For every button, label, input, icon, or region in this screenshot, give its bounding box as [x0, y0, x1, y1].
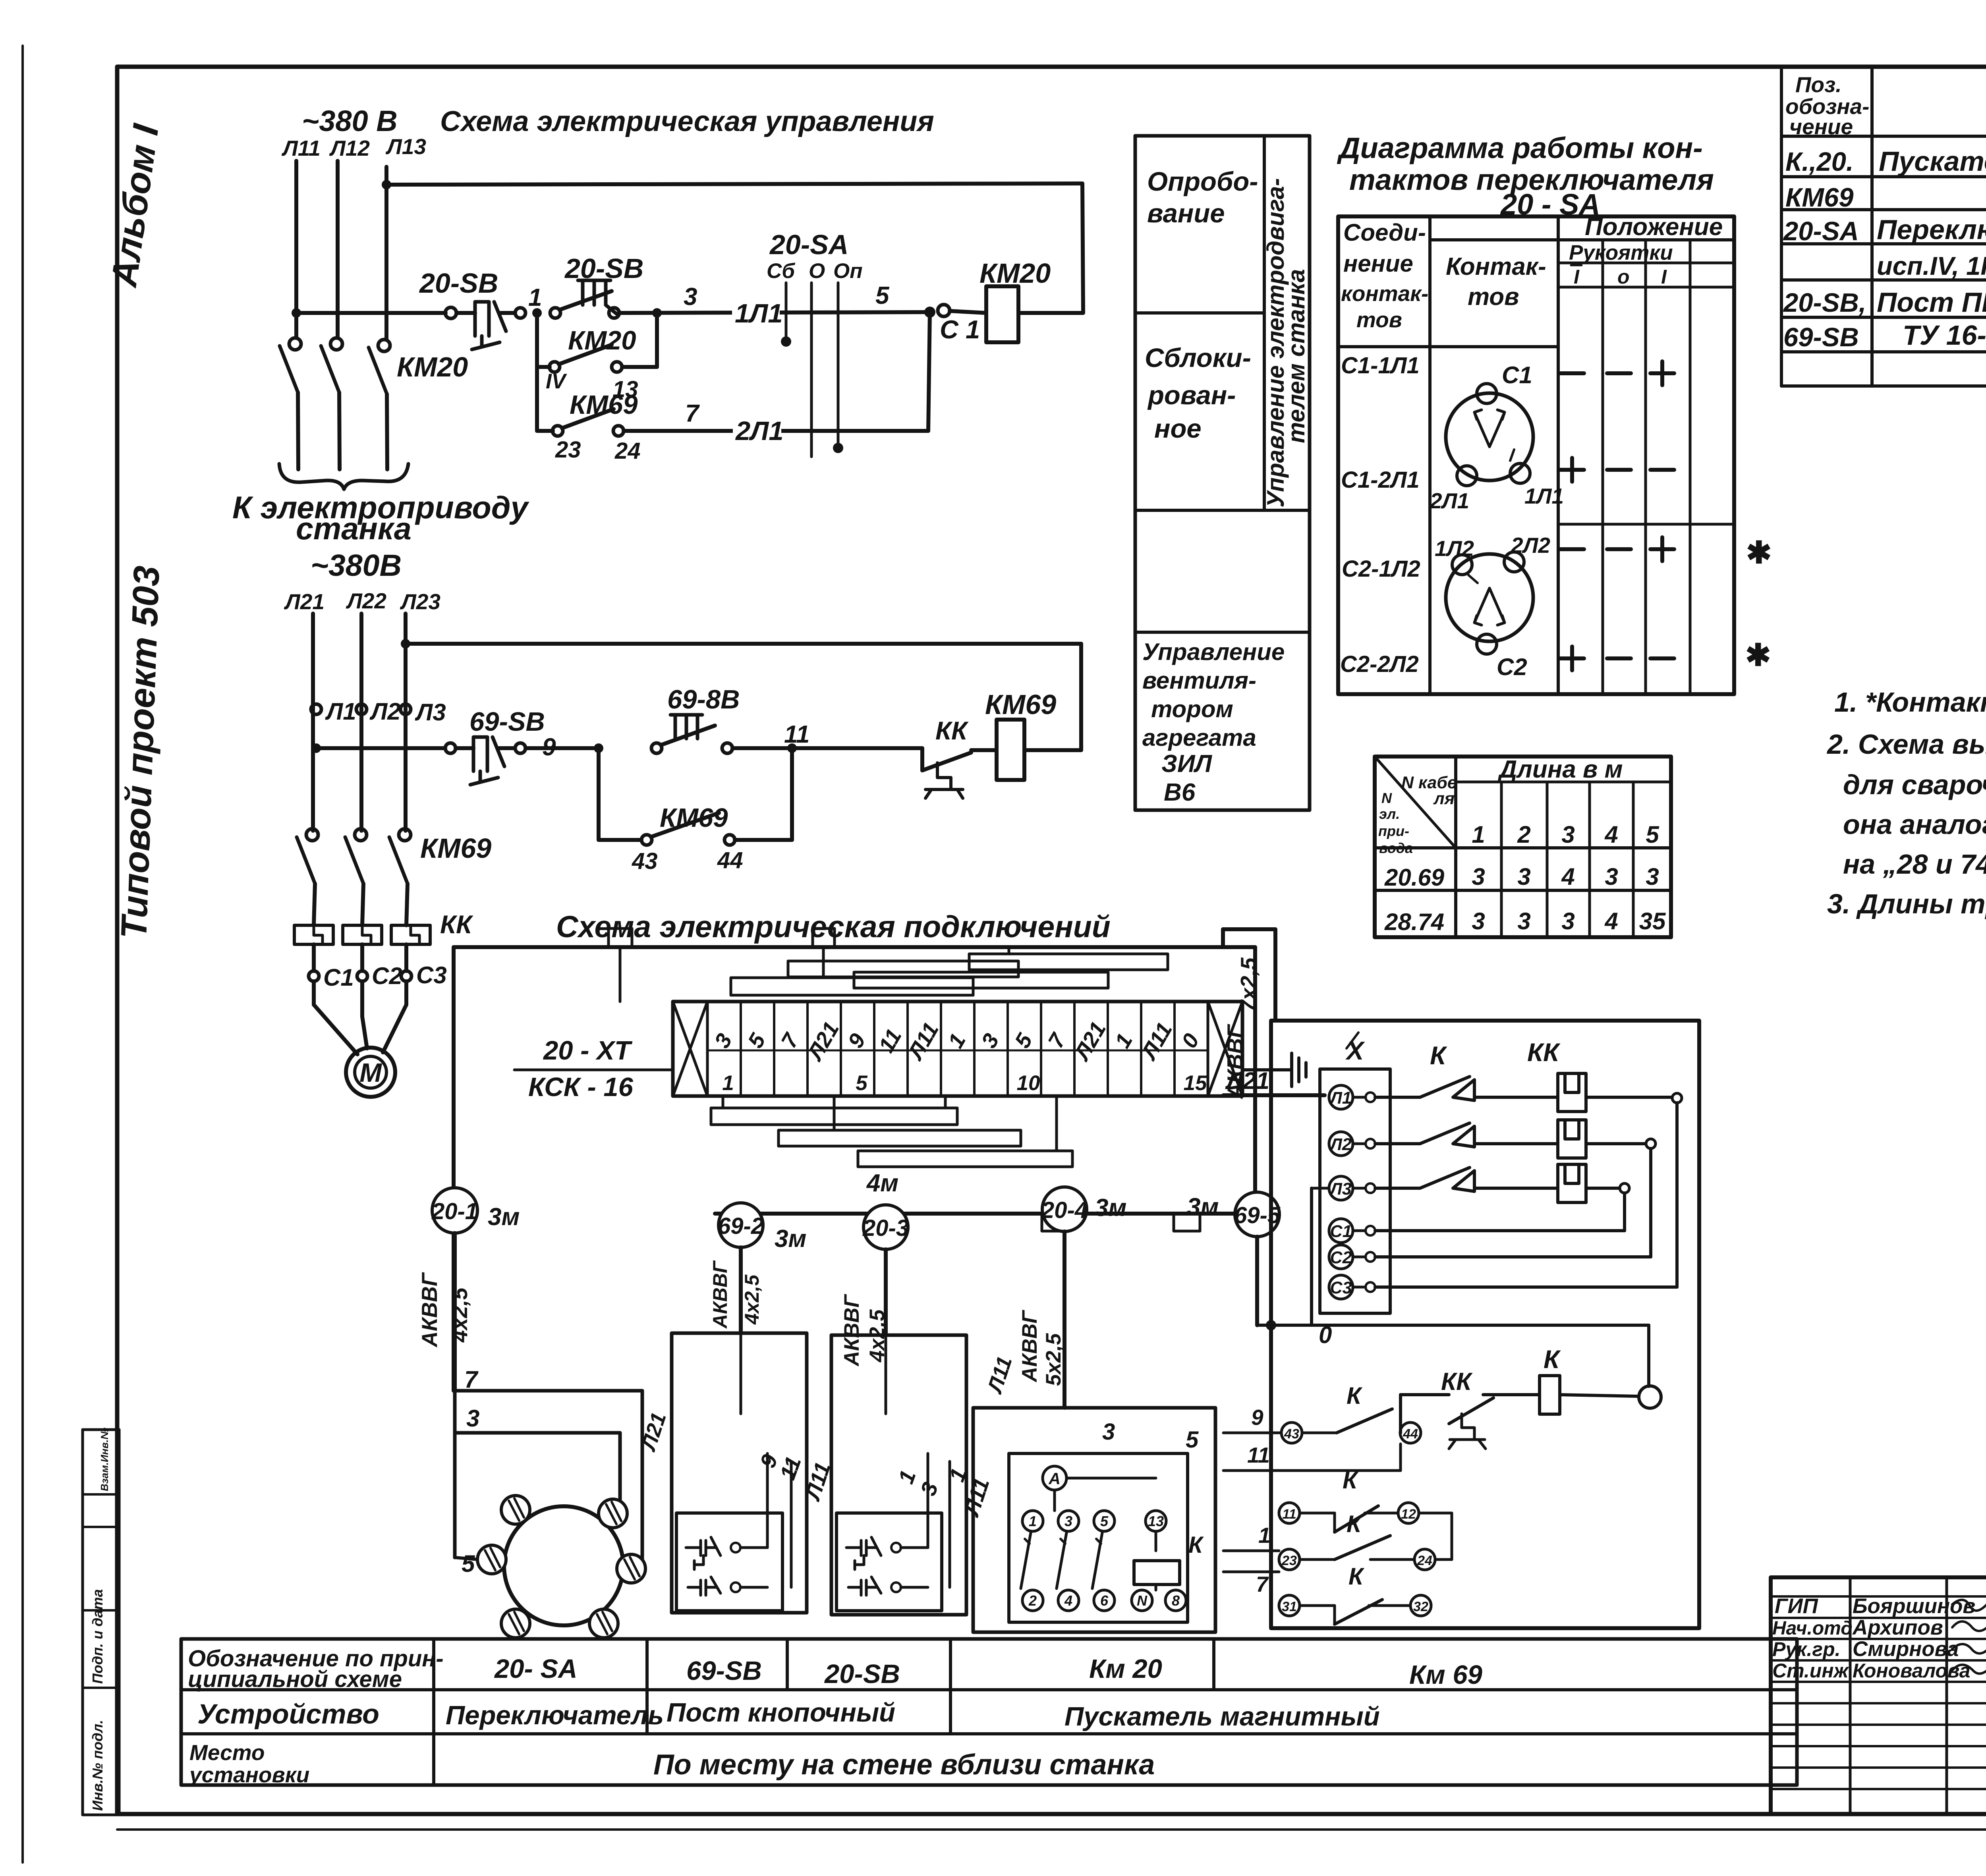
K coil in starter — [1134, 1561, 1180, 1585]
svg-text:С3: С3 — [416, 962, 447, 988]
svg-text:~380 В: ~380 В — [302, 104, 398, 137]
terminals L1 L2 L3 — [311, 704, 321, 714]
svg-text:10: 10 — [1017, 1071, 1040, 1095]
stub 11 to 44 — [1223, 1469, 1401, 1472]
svg-text:5: 5 — [856, 1071, 868, 1095]
svg-text:N: N — [1381, 790, 1392, 806]
svg-text:С1: С1 — [1330, 1222, 1352, 1241]
svg-text:31: 31 — [1282, 1599, 1297, 1614]
svg-text:3: 3 — [466, 1405, 479, 1432]
svg-text:контак-: контак- — [1341, 281, 1428, 306]
svg-text:С2-1Л2: С2-1Л2 — [1342, 556, 1420, 582]
KM69 holding loop — [597, 748, 601, 840]
svg-text:4х2,5: 4х2,5 — [447, 1287, 472, 1343]
svg-text:N: N — [1137, 1592, 1148, 1609]
svg-text:Сб: Сб — [767, 259, 795, 283]
svg-text:КК: КК — [935, 716, 969, 745]
svg-text:КК: КК — [1527, 1038, 1561, 1067]
top bus wire — [382, 180, 391, 189]
cable circle 20-3 — [864, 1205, 908, 1249]
svg-text:чение: чение — [1789, 114, 1853, 139]
svg-text:3м: 3м — [1095, 1194, 1126, 1222]
X end symbols — [673, 1002, 707, 1096]
stubs 1 and 7 — [1223, 1550, 1279, 1552]
rung2 top bus — [401, 639, 410, 648]
svg-text:20-SB: 20-SB — [564, 253, 643, 284]
svg-text:3: 3 — [1517, 908, 1530, 934]
rung1 main wire — [292, 308, 301, 318]
KM20 holding branch — [535, 313, 539, 431]
svg-text:КМ69: КМ69 — [985, 689, 1056, 720]
svg-text:нение: нение — [1343, 250, 1413, 277]
svg-text:Ст.инж: Ст.инж — [1772, 1660, 1849, 1682]
svg-text:установки: установки — [188, 1762, 309, 1787]
svg-text:С 1: С 1 — [940, 315, 980, 344]
svg-text:7: 7 — [776, 1029, 804, 1052]
svg-text:23: 23 — [555, 437, 581, 463]
svg-text:20-1: 20-1 — [431, 1199, 478, 1224]
svg-text:7: 7 — [685, 400, 700, 427]
svg-text:3: 3 — [1064, 1513, 1072, 1529]
svg-text:С3: С3 — [1330, 1278, 1352, 1297]
svg-text:ля: ля — [1433, 789, 1455, 808]
svg-text:3: 3 — [1517, 863, 1530, 890]
svg-text:43: 43 — [632, 848, 658, 874]
svg-text:Л11: Л11 — [983, 1354, 1017, 1397]
wire label 2L1 — [733, 416, 781, 442]
stub 9 — [1223, 1432, 1281, 1434]
neutral 0 wire across — [1267, 1321, 1275, 1329]
KM69 main contacts — [306, 829, 318, 841]
svg-text:Л22: Л22 — [346, 589, 386, 613]
svg-text:24: 24 — [614, 438, 641, 464]
svg-text:Оп: Оп — [833, 259, 863, 283]
phase line L13 — [384, 167, 388, 339]
svg-text:АКВВГ: АКВВГ — [417, 1272, 442, 1348]
svg-text:44: 44 — [1403, 1426, 1418, 1442]
title block — [1771, 1577, 1986, 1814]
KM69 interlock row — [537, 429, 553, 433]
svg-text:I: I — [1574, 266, 1580, 288]
svg-text:11: 11 — [873, 1025, 906, 1056]
svg-text:АКВВГ: АКВВГ — [709, 1260, 731, 1329]
KM20 main contacts — [289, 338, 301, 350]
strip terminals — [1329, 1085, 1353, 1109]
svg-text:5х2,5: 5х2,5 — [1042, 1333, 1065, 1386]
svg-text:К: К — [1347, 1511, 1363, 1537]
svg-text:23: 23 — [1281, 1553, 1297, 1568]
svg-text:7: 7 — [464, 1366, 479, 1393]
svg-text:Пост ПКЕ 712УЗ, 1/2 :: Пост ПКЕ 712УЗ, 1/2 : — [1877, 287, 1986, 318]
svg-text:М: М — [359, 1058, 382, 1088]
svg-text:вода: вода — [1379, 840, 1413, 856]
svg-text:4м: 4м — [866, 1170, 898, 1197]
svg-text:0: 0 — [1177, 1029, 1204, 1052]
svg-text:Архипов: Архипов — [1852, 1616, 1943, 1639]
svg-text:КМ69: КМ69 — [660, 803, 728, 833]
svg-text:20.69: 20.69 — [1384, 864, 1445, 891]
svg-text:К.,20.: К.,20. — [1785, 147, 1854, 177]
phase line L23 — [404, 614, 408, 831]
svg-text:К: К — [1347, 1382, 1363, 1409]
svg-text:69-2: 69-2 — [718, 1213, 764, 1239]
svg-text:КМ20: КМ20 — [397, 351, 468, 382]
svg-text:КСК - 16: КСК - 16 — [528, 1072, 634, 1102]
svg-text:2. Схема выполнена для станк: 2. Схема выполнена для станка и вентилят… — [1826, 729, 1986, 760]
rotary diagram C1 — [1446, 393, 1533, 481]
svg-text:11: 11 — [1282, 1507, 1296, 1522]
KK heater elements — [294, 925, 333, 944]
svg-text:3: 3 — [1102, 1419, 1115, 1445]
svg-text:1: 1 — [943, 1029, 970, 1052]
svg-text:ГИП: ГИП — [1775, 1594, 1819, 1618]
svg-text:3: 3 — [1472, 863, 1485, 890]
svg-text:✱: ✱ — [1746, 536, 1772, 570]
svg-text:1: 1 — [1029, 1513, 1037, 1529]
svg-text:3: 3 — [1472, 908, 1485, 934]
lamp rung with K coil and KK break — [1560, 1395, 1639, 1396]
svg-text:3: 3 — [684, 283, 697, 311]
svg-text:С1: С1 — [323, 964, 354, 991]
svg-text:Место: Место — [189, 1740, 265, 1765]
svg-text:69-8В: 69-8В — [667, 685, 740, 714]
svg-text:69-SB: 69-SB — [469, 707, 545, 737]
svg-text:исп.IV, 1Р54, ОСТ 16.0526.00: исп.IV, 1Р54, ОСТ 16.0526.001-77 — [1877, 251, 1986, 280]
svg-text:69-5: 69-5 — [1234, 1202, 1281, 1228]
sheet bottom edge line — [117, 1828, 1986, 1831]
svg-text:2Л1: 2Л1 — [735, 416, 784, 446]
svg-text:Подп. и дата: Подп. и дата — [89, 1589, 106, 1684]
bottom identification table — [181, 1639, 1797, 1785]
sheet left edge line — [21, 46, 24, 1862]
svg-text:I: I — [1661, 266, 1667, 288]
svg-text:Л2: Л2 — [369, 698, 401, 725]
svg-text:Л11: Л11 — [281, 136, 321, 160]
motor M — [346, 1048, 395, 1097]
svg-text:3: 3 — [1561, 908, 1575, 934]
svg-text:✱: ✱ — [1745, 638, 1771, 672]
svg-text:4: 4 — [1604, 908, 1618, 934]
terminals 43 44 row — [1281, 1422, 1302, 1443]
button glyphs box1 — [686, 1537, 721, 1569]
svg-text:Смирнова: Смирнова — [1853, 1637, 1959, 1661]
svg-text:Контак-: Контак- — [1446, 253, 1546, 280]
K contact rows with KK heaters — [1375, 1096, 1420, 1099]
svg-text:12: 12 — [1401, 1507, 1416, 1522]
svg-text:К: К — [1544, 1345, 1561, 1374]
svg-text:на „28 и 74.": на „28 и 74." — [1843, 849, 1986, 880]
jumper links above strip — [731, 978, 973, 995]
svg-text:Опробо-: Опробо- — [1147, 167, 1258, 197]
motor leads — [312, 981, 316, 1005]
svg-text:69-SB: 69-SB — [1783, 322, 1859, 352]
svg-text:Положение: Положение — [1585, 213, 1723, 241]
7x2.5 cable to right box — [1221, 929, 1225, 947]
svg-text:Диаграмма работы кон-: Диаграмма работы кон- — [1337, 131, 1703, 164]
svg-text:6: 6 — [1100, 1592, 1109, 1609]
svg-text:5: 5 — [743, 1029, 771, 1052]
chevron head — [578, 280, 616, 314]
svg-text:35: 35 — [1639, 908, 1666, 934]
svg-text:Рукоятки: Рукоятки — [1569, 241, 1673, 264]
contact row 23-24 — [1279, 1549, 1300, 1570]
svg-text:К: К — [1430, 1041, 1447, 1070]
svg-text:20-SA: 20-SA — [769, 229, 848, 260]
svg-text:1: 1 — [893, 1467, 921, 1487]
svg-text:5: 5 — [1100, 1513, 1109, 1529]
svg-text:Переключатель: Переключатель — [446, 1700, 664, 1730]
svg-text:Пост кнопочный: Пост кнопочный — [667, 1698, 895, 1727]
svg-text:3: 3 — [1646, 863, 1659, 890]
length table — [1375, 757, 1671, 937]
svg-text:Л23: Л23 — [400, 589, 440, 614]
svg-text:С1-2Л1: С1-2Л1 — [1341, 467, 1420, 493]
svg-text:7х2,5: 7х2,5 — [1236, 957, 1261, 1012]
svg-text:1: 1 — [528, 284, 542, 311]
top tabs — [609, 928, 632, 947]
svg-text:Л1: Л1 — [325, 698, 356, 725]
svg-text:ТУ 16-526.216-78: ТУ 16-526.216-78 — [1903, 320, 1986, 351]
svg-text:АКВВГ: АКВВГ — [840, 1294, 864, 1367]
svg-text:20-SB,: 20-SB, — [1783, 288, 1866, 318]
svg-text:11: 11 — [1247, 1443, 1270, 1467]
svg-text:20-SA: 20-SA — [1783, 216, 1859, 246]
bus right down to coil — [1082, 183, 1083, 312]
rung2 main wire — [311, 743, 321, 753]
K coil rect — [1540, 1376, 1560, 1414]
svg-text:1: 1 — [722, 1071, 734, 1095]
svg-text:2Л1: 2Л1 — [1430, 488, 1469, 513]
svg-text:АКВВГ: АКВВГ — [1018, 1310, 1041, 1383]
L3 drop to neutral — [1312, 1187, 1329, 1190]
svg-text:КМ69: КМ69 — [420, 833, 491, 864]
svg-text:2: 2 — [1517, 821, 1530, 848]
coil KM69 — [997, 720, 1024, 780]
NC pushbutton 20-SB — [456, 311, 475, 315]
svg-text:IV: IV — [546, 370, 568, 393]
svg-text:2Л2: 2Л2 — [1511, 533, 1550, 558]
svg-text:Альбом I: Альбом I — [104, 121, 167, 290]
terminals C1 — [924, 307, 935, 318]
svg-text:1Л1: 1Л1 — [1524, 484, 1564, 508]
circled A — [1043, 1466, 1066, 1490]
svg-text:20 - ХТ: 20 - ХТ — [543, 1036, 633, 1065]
svg-text:Л2: Л2 — [1329, 1135, 1352, 1154]
parts list table — [1780, 67, 1783, 386]
svg-text:Длина в м: Длина в м — [1497, 756, 1623, 783]
fraction 20-XT / KCK-16 — [514, 1069, 673, 1071]
svg-text:Л21: Л21 — [1225, 1067, 1269, 1094]
svg-text:Л3: Л3 — [415, 699, 446, 726]
svg-text:тов: тов — [1356, 307, 1402, 332]
svg-text:станка: станка — [296, 511, 411, 546]
svg-text:С2: С2 — [1330, 1248, 1352, 1267]
svg-text:Л13: Л13 — [385, 134, 426, 159]
NO chevron 69-SB — [651, 743, 662, 753]
svg-text:КК: КК — [1441, 1368, 1473, 1395]
svg-text:7: 7 — [1043, 1029, 1071, 1052]
svg-text:20- SA: 20- SA — [494, 1654, 578, 1684]
svg-text:В6: В6 — [1164, 779, 1196, 806]
svg-text:Устройство: Устройство — [197, 1698, 379, 1729]
phase line L11 — [294, 161, 298, 338]
svg-text:ное: ное — [1154, 414, 1202, 444]
svg-text:Нач.отд: Нач.отд — [1772, 1618, 1853, 1639]
plus minus marks — [1560, 371, 1584, 375]
svg-text:телем станка: телем станка — [1283, 269, 1310, 443]
svg-text:4: 4 — [1561, 863, 1575, 890]
svg-text:Х: Х — [1345, 1036, 1365, 1065]
signature squiggles — [1952, 1600, 1986, 1610]
svg-text:К: К — [1188, 1532, 1204, 1558]
svg-text:4: 4 — [1064, 1592, 1072, 1609]
bottom tabs — [727, 1214, 753, 1231]
cable circle 20-4 — [1042, 1187, 1087, 1231]
svg-text:3: 3 — [1561, 821, 1575, 848]
svg-text:тов: тов — [1468, 283, 1519, 311]
svg-text:3м: 3м — [488, 1203, 520, 1231]
svg-text:для сварочного аппарата и ве: для сварочного аппарата и вентсистемы В1 — [1843, 769, 1986, 800]
svg-text:20-SB: 20-SB — [419, 268, 498, 299]
phase line L22 — [359, 614, 363, 831]
svg-text:43: 43 — [1284, 1426, 1299, 1442]
svg-text:15: 15 — [1184, 1071, 1207, 1095]
post box 69-SB — [672, 1333, 807, 1613]
svg-text:о: о — [1617, 266, 1630, 288]
phase line L12 — [336, 161, 340, 338]
svg-text:Типовой проект 503: Типовой проект 503 — [114, 565, 167, 940]
svg-text:2: 2 — [1028, 1592, 1037, 1609]
NO chevron button 20-SB — [550, 308, 560, 318]
cable circle 20-1 — [432, 1188, 477, 1233]
NC pushbutton 69-SB — [456, 746, 473, 750]
svg-text:11: 11 — [775, 1453, 806, 1483]
svg-text:~380В: ~380В — [311, 548, 402, 583]
contact row 11-12 — [1279, 1503, 1300, 1523]
XT terminal strip — [673, 1002, 1242, 1096]
svg-text:Поз.: Поз. — [1795, 72, 1842, 97]
svg-text:5: 5 — [1010, 1029, 1037, 1052]
svg-text:11: 11 — [784, 721, 809, 748]
svg-text:С2-2Л2: С2-2Л2 — [1340, 651, 1419, 677]
svg-text:Переключатель ПП2-10/н2УЧ.: Переключатель ПП2-10/н2УЧ. — [1877, 214, 1986, 245]
svg-text:20-3: 20-3 — [862, 1215, 909, 1241]
svg-text:1: 1 — [1472, 821, 1485, 848]
svg-text:эл.: эл. — [1379, 806, 1400, 822]
svg-text:Л12: Л12 — [329, 136, 370, 160]
left stamp strip — [81, 1430, 84, 1815]
svg-text:тором: тором — [1151, 696, 1233, 722]
svg-text:3м: 3м — [1187, 1193, 1219, 1221]
svg-text:3м: 3м — [775, 1225, 806, 1253]
svg-text:К: К — [1348, 1563, 1365, 1590]
rotary big circle — [504, 1506, 623, 1625]
svg-text:4: 4 — [1604, 821, 1618, 848]
svg-text:С1: С1 — [1502, 362, 1532, 388]
wire label 1L1 — [732, 298, 780, 324]
svg-text:5: 5 — [462, 1550, 475, 1577]
svg-text:1Л2: 1Л2 — [1435, 536, 1474, 561]
phase line L21 — [311, 614, 315, 831]
bolt terminals — [501, 1496, 530, 1524]
svg-text:Управление: Управление — [1142, 639, 1285, 665]
svg-text:3. Длины трасс даны в табл: 3. Длины трасс даны в табличке. — [1827, 888, 1986, 919]
svg-text:О: О — [809, 259, 825, 283]
svg-text:9: 9 — [843, 1029, 870, 1052]
X strip — [1320, 1069, 1390, 1313]
svg-text:Л1: Л1 — [1329, 1089, 1351, 1108]
KK thermal contact — [920, 748, 924, 770]
right panel box — [1271, 1021, 1699, 1628]
svg-text:3: 3 — [976, 1029, 1004, 1052]
svg-text:КМ20: КМ20 — [979, 258, 1051, 289]
starter top contacts — [1022, 1511, 1043, 1531]
svg-text:20-SB: 20-SB — [824, 1659, 900, 1689]
svg-text:Км 20: Км 20 — [1089, 1654, 1162, 1684]
svg-text:9: 9 — [1251, 1405, 1263, 1430]
svg-text:Взам.Инв.№: Взам.Инв.№ — [99, 1428, 110, 1491]
svg-text:С1-1Л1: С1-1Л1 — [1341, 353, 1420, 378]
svg-text:1: 1 — [1110, 1029, 1137, 1052]
svg-text:24: 24 — [1417, 1553, 1432, 1568]
svg-text:5: 5 — [875, 282, 890, 309]
svg-text:32: 32 — [1413, 1599, 1428, 1614]
svg-text:С2: С2 — [1497, 654, 1527, 680]
contact row 31-32 — [1279, 1595, 1300, 1616]
enclosure box 20-XT — [454, 945, 1255, 949]
svg-text:агрегата: агрегата — [1142, 724, 1256, 751]
svg-text:Л21: Л21 — [284, 589, 325, 614]
svg-text:28.74: 28.74 — [1384, 909, 1444, 935]
svg-text:7: 7 — [1256, 1572, 1269, 1596]
svg-text:Соеди-: Соеди- — [1343, 219, 1426, 246]
svg-text:КМ69: КМ69 — [1785, 183, 1854, 212]
svg-text:КМ20: КМ20 — [568, 326, 636, 355]
contact diagram table — [1338, 216, 1734, 694]
svg-text:ципиальной схеме: ципиальной схеме — [188, 1666, 402, 1692]
svg-text:при-: при- — [1378, 823, 1409, 839]
svg-text:КМ69: КМ69 — [570, 390, 638, 420]
svg-text:1: 1 — [1258, 1523, 1271, 1548]
svg-text:Пускатель магнитный: Пускатель магнитный — [1064, 1702, 1380, 1731]
svg-text:5: 5 — [1186, 1427, 1199, 1453]
svg-text:13: 13 — [1148, 1513, 1164, 1529]
svg-text:1Л1: 1Л1 — [735, 299, 783, 328]
svg-text:А: А — [1048, 1469, 1061, 1488]
svg-text:3: 3 — [709, 1029, 737, 1052]
svg-text:Км 69: Км 69 — [1409, 1660, 1482, 1690]
svg-text:5: 5 — [1646, 821, 1660, 848]
svg-text:3: 3 — [1605, 863, 1618, 890]
svg-text:Инв.№ подл.: Инв.№ подл. — [89, 1720, 106, 1811]
tall table — [1134, 136, 1137, 810]
svg-text:ЗИЛ: ЗИЛ — [1161, 750, 1212, 778]
svg-text:рован-: рован- — [1147, 380, 1236, 410]
svg-text:вание: вание — [1147, 199, 1225, 228]
svg-text:К: К — [1343, 1467, 1359, 1494]
svg-text:По месту на стене вблизи: По месту на стене вблизи станка — [653, 1749, 1155, 1781]
svg-text:44: 44 — [717, 847, 743, 873]
rotary diagram C2 — [1446, 554, 1533, 641]
cable circle 69-2 — [719, 1203, 763, 1247]
svg-text:Пускатель магнитный: Пускатель магнитный — [1879, 146, 1986, 177]
coil KM20 — [986, 286, 1018, 342]
KK break contact — [1449, 1398, 1493, 1424]
signal lamp — [1639, 1386, 1661, 1408]
svg-text:4х2,5: 4х2,5 — [741, 1274, 763, 1325]
brace to drive — [279, 464, 408, 489]
ground symbol — [1242, 1068, 1292, 1071]
